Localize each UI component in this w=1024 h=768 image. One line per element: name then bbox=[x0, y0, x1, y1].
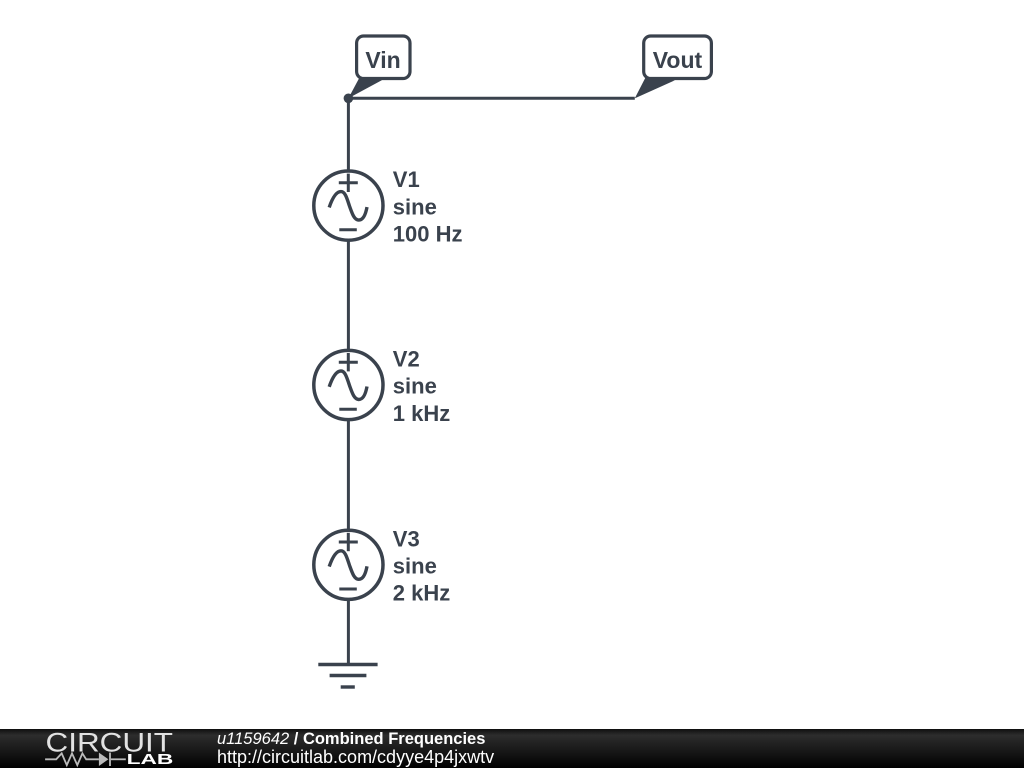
footer bar bbox=[0, 729, 1024, 768]
svg-text:V1: V1 bbox=[393, 167, 420, 192]
svg-text:sine: sine bbox=[393, 194, 437, 219]
wire Vin node to V1 bbox=[347, 98, 350, 205]
node junction Vin bbox=[344, 94, 354, 104]
label V3 sine 2 kHz bbox=[393, 526, 450, 605]
svg-text:sine: sine bbox=[393, 374, 437, 399]
voltage source V1 bbox=[314, 171, 383, 240]
wire V1 to V2 bbox=[347, 206, 350, 385]
svg-text:Vout: Vout bbox=[653, 47, 703, 73]
label V2 sine 1 kHz bbox=[393, 347, 450, 426]
label V1 sine 100 Hz bbox=[393, 167, 463, 246]
svg-text:V3: V3 bbox=[393, 526, 420, 551]
net flag Vin bbox=[348, 36, 410, 98]
ground bbox=[318, 665, 377, 688]
svg-text:100 Hz: 100 Hz bbox=[393, 222, 463, 247]
svg-text:Vin: Vin bbox=[365, 47, 400, 73]
svg-text:V2: V2 bbox=[393, 347, 420, 372]
net flag Vout bbox=[635, 36, 712, 98]
footer text bbox=[217, 730, 494, 767]
wire V3 to ground bbox=[347, 565, 350, 665]
svg-text:LAB: LAB bbox=[127, 752, 174, 768]
svg-text:2 kHz: 2 kHz bbox=[393, 581, 450, 606]
wire V2 to V3 bbox=[347, 385, 350, 565]
voltage source V2 bbox=[314, 350, 383, 419]
CircuitLab logo bbox=[0, 729, 200, 768]
svg-text:sine: sine bbox=[393, 554, 437, 579]
wire Vin node to Vout bbox=[348, 97, 634, 100]
svg-text:1 kHz: 1 kHz bbox=[393, 401, 450, 426]
voltage source V3 bbox=[314, 530, 383, 599]
